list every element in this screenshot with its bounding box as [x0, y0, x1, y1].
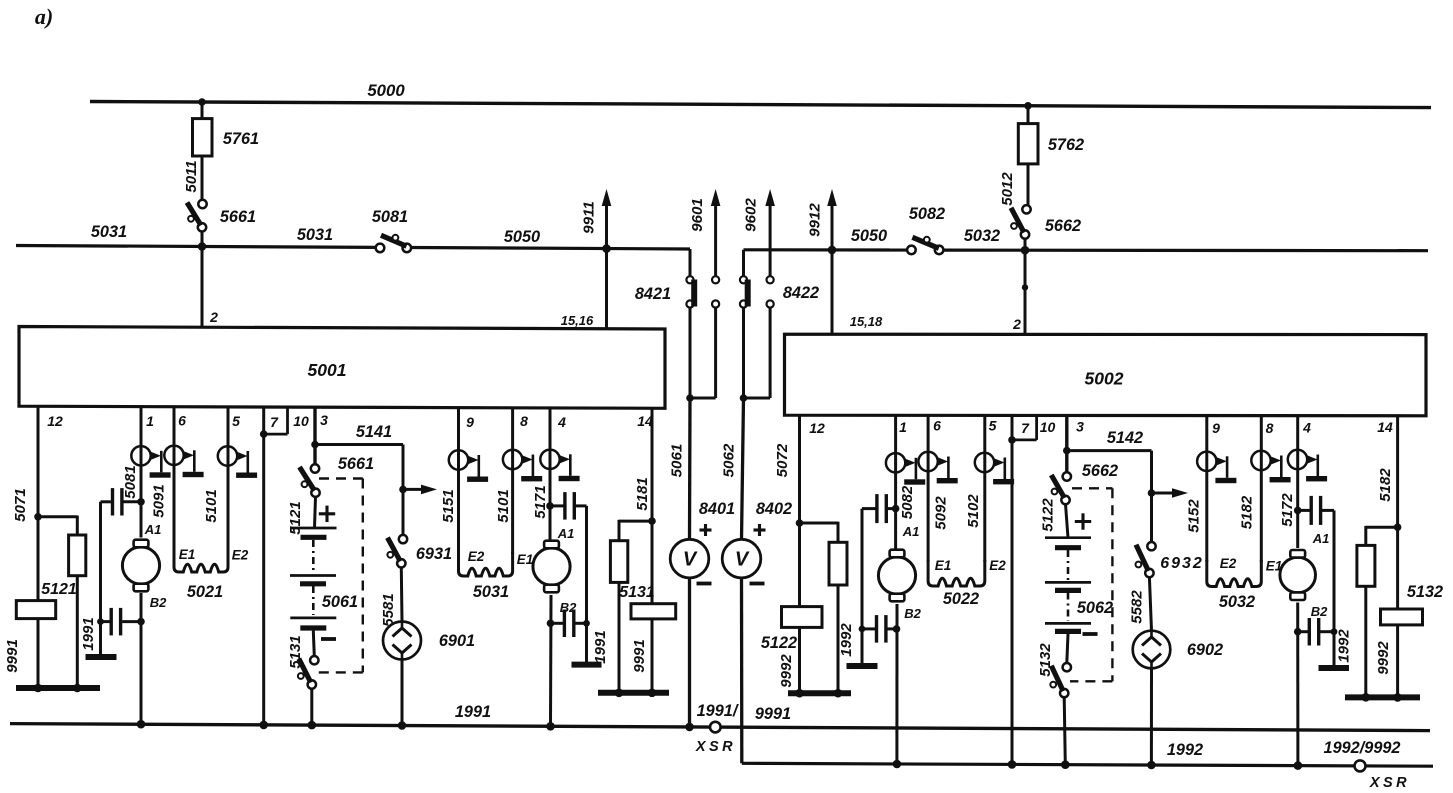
ground bar 1992 (far right capacitor column): [1319, 665, 1350, 671]
ground bar 1991 (middle capacitor column): [572, 662, 602, 668]
svg-text:5031: 5031: [297, 226, 333, 244]
knife switch 5661 (battery isolation): [300, 455, 375, 497]
net label 5050 (right): [851, 227, 887, 245]
ground bar 9991 (pin 14 column): [598, 689, 669, 698]
apparatus box 5002: [785, 334, 1427, 416]
label 8402: [756, 500, 792, 518]
junction voltmeter 8401 on bus 1991: [685, 723, 694, 732]
net label 9991 (rotated, left): [4, 639, 21, 673]
wire node 5071 to resistor branch: [38, 516, 77, 536]
net label 5031 (middle): [297, 226, 333, 244]
svg-text:5172: 5172: [1279, 493, 1296, 527]
suppression capacitor (upper, motor A1): [101, 488, 142, 515]
svg-text:5072: 5072: [774, 443, 791, 477]
svg-text:1992: 1992: [1335, 629, 1352, 663]
contactor contact on pin 9 wire (right): [1197, 452, 1236, 484]
net label 5050 (left): [504, 228, 540, 246]
junction pin 7 wire on bus 1991: [259, 721, 268, 730]
battery 5061 cell 1 with + polarity: [291, 506, 337, 538]
field winding 5021 (terminals E1-E2): [174, 547, 249, 601]
svg-text:B2: B2: [150, 595, 167, 610]
junction lower capacitor on motor wire (far right): [1294, 628, 1302, 636]
svg-text:V: V: [735, 549, 750, 571]
svg-text:5061: 5061: [322, 593, 358, 611]
polarity + of 8401: [700, 524, 712, 536]
svg-text:5152: 5152: [1185, 499, 1202, 533]
contactor contact 5081 on pin 1 wire: [131, 446, 170, 478]
svg-text:4: 4: [1302, 420, 1311, 436]
pin label 8 (box 5002): [1266, 420, 1274, 436]
net label 9992 (rotated, pin 14 column right): [1375, 641, 1392, 675]
svg-text:9991: 9991: [755, 705, 791, 723]
svg-text:3: 3: [1076, 419, 1084, 435]
svg-text:A1: A1: [1312, 531, 1330, 546]
svg-text:1: 1: [899, 419, 907, 435]
wire battery to switch 5132: [1067, 634, 1068, 663]
ground bar 9992 (pin 14 column right): [1345, 693, 1420, 702]
svg-text:9: 9: [1212, 420, 1220, 436]
net label 9991 (rotated, pin 14 column): [631, 639, 648, 672]
battery 5061 cell 3 with - polarity: [290, 618, 336, 639]
terminal label A1 (left motor): [144, 522, 162, 537]
pin label 15,18 (box 5002): [850, 314, 883, 329]
svg-text:5001: 5001: [308, 360, 347, 380]
junction far right motor wire on bus 1992: [1294, 761, 1303, 770]
knife switch 5082 on bus: [907, 205, 945, 254]
resistor (branch of 5122): [829, 542, 847, 585]
signal lamp 6901: [383, 622, 475, 660]
net label 9601 (rotated): [689, 198, 706, 232]
wire pin 6 of 5001 to winding E1: [173, 406, 176, 550]
svg-text:5122: 5122: [1039, 498, 1056, 532]
wire resistor branch to ground bar 9992: [837, 585, 840, 693]
net label 5092 (rotated): [932, 496, 949, 530]
net label 5581 (rotated): [380, 593, 397, 626]
junction resistor branch (pin 14 right): [1394, 523, 1402, 531]
svg-text:4: 4: [557, 414, 566, 430]
svg-text:A1: A1: [557, 526, 575, 541]
svg-text:XSR: XSR: [695, 739, 736, 755]
terminal label A1 (right block motor): [902, 524, 920, 539]
svg-text:E1: E1: [935, 558, 952, 573]
wire pin 12 of 5001 down to node 5071: [37, 406, 40, 517]
net label 5582 (rotated): [1128, 590, 1145, 624]
svg-text:6902: 6902: [1187, 641, 1223, 659]
svg-text:5081: 5081: [372, 208, 408, 226]
junction with take-off arrow on 5142 branch: [1148, 488, 1188, 498]
wire pin 14 of 5001 down: [651, 408, 654, 603]
wire motor B2 to bus 1991: [140, 593, 143, 724]
net label 5152 (rotated): [1185, 499, 1202, 533]
pin label 12 (box 5002): [809, 420, 825, 436]
contactor contact on pin 6 wire (right): [918, 452, 957, 484]
net label 5181 (rotated): [634, 477, 651, 510]
junction motor wire on bus 1991: [137, 720, 146, 729]
svg-text:5062: 5062: [721, 443, 738, 477]
pin label 9 (box 5001): [466, 414, 474, 430]
traction motor armature (pins A1-B2, right block): [878, 550, 915, 602]
traction motor armature (pins A1-B2, left): [122, 540, 159, 592]
polarity - of 8402: [750, 582, 765, 586]
junction battery branch on bus 1991: [308, 721, 317, 730]
svg-text:9992: 9992: [1375, 641, 1392, 675]
wire pin 8 of 5001 to winding E1: [511, 408, 514, 554]
junction lamp wire on bus 1991: [398, 721, 407, 730]
contactor contact on pin 8 wire: [503, 450, 542, 482]
svg-text:5050: 5050: [851, 227, 887, 245]
plug connector 8421 contact b: [712, 276, 719, 307]
net label 5132 (rotated, battery bottom right): [1037, 643, 1054, 677]
net label 1992 on bus: [1167, 741, 1203, 759]
wire resistor 5181 to ground bar 9991: [618, 582, 621, 692]
junction of capacitor 5171 on pin 4 wire: [546, 502, 554, 510]
junction of pin 2 wire with bus 5032: [1021, 246, 1030, 255]
svg-text:9912: 9912: [807, 203, 824, 237]
svg-text:5661: 5661: [220, 208, 256, 226]
svg-text:5012: 5012: [999, 172, 1016, 206]
wire switch 5662 to battery 5062: [1066, 504, 1069, 538]
svg-text:A1: A1: [144, 522, 162, 537]
net label 1991 (rotated, middle): [592, 630, 609, 663]
wire switch 6931 to lamp 6901: [400, 567, 404, 621]
svg-text:5142: 5142: [1107, 429, 1143, 447]
terminal label A1 (far right motor): [1312, 531, 1330, 546]
junction of lower capacitor on motor wire: [137, 618, 145, 626]
svg-text:5182: 5182: [1238, 495, 1255, 529]
svg-text:5032: 5032: [964, 227, 1000, 245]
junction node 5142: [1063, 447, 1071, 455]
svg-text:E2: E2: [989, 558, 1006, 573]
pin label 5 (box 5001): [232, 413, 240, 429]
pin label 10 (box 5002): [1040, 419, 1056, 435]
svg-text:E1: E1: [179, 547, 196, 562]
svg-text:5082: 5082: [909, 205, 945, 223]
wire node 5071 to resistor 5121: [37, 517, 40, 601]
svg-text:9601: 9601: [689, 198, 706, 232]
wire pins 10,3 of 5001 down to switch 5661: [313, 406, 316, 468]
svg-text:8: 8: [1266, 420, 1274, 436]
svg-text:E2: E2: [232, 548, 249, 563]
svg-text:1: 1: [146, 413, 154, 429]
terminal label B2 (right block motor): [904, 606, 921, 621]
svg-text:5: 5: [232, 413, 240, 429]
junction capacitor 5082 on pin 1 wire: [892, 505, 900, 513]
wire node 5072 to resistor branch (right): [800, 522, 839, 543]
svg-text:10: 10: [1040, 419, 1056, 435]
svg-text:5091: 5091: [150, 484, 167, 517]
bus 5031/5050 (second wire, left part): [16, 246, 690, 250]
svg-text:5122: 5122: [761, 634, 797, 652]
net label 5062 (rotated): [721, 443, 738, 477]
svg-text:2: 2: [209, 309, 218, 325]
net label 5011 (rotated): [183, 160, 200, 192]
net label 5122 (rotated, battery top right): [1039, 498, 1056, 532]
wire pin 1 of 5001 to motor A1: [140, 406, 143, 537]
label 8422: [783, 284, 819, 302]
wire switch 5661 to battery 5061: [315, 497, 316, 528]
svg-text:5022: 5022: [943, 590, 979, 608]
net label 5032: [964, 227, 1000, 245]
junction lower capacitor on motor wire (right block): [893, 625, 901, 633]
svg-text:6: 6: [178, 413, 186, 429]
svg-text:5: 5: [989, 418, 997, 434]
dashed enclosure of battery 5061: [317, 479, 363, 673]
connector label XSR (left): [695, 739, 736, 755]
svg-text:5131: 5131: [619, 584, 655, 601]
net label 5141: [356, 423, 392, 441]
wire pin 4 of 5001 to motor A1 (right): [549, 408, 552, 543]
svg-text:15,18: 15,18: [850, 314, 883, 329]
svg-text:5071: 5071: [12, 488, 29, 522]
net label 1992/9992 at connector: [1324, 739, 1401, 757]
svg-text:5101: 5101: [203, 489, 220, 522]
svg-text:5062: 5062: [1077, 599, 1113, 617]
apparatus box 5001: [19, 327, 665, 409]
bus 5050/5032 (second wire, right part): [744, 248, 1429, 252]
contactor contact on pin 4 wire: [540, 450, 579, 482]
resistor box 5132: [1381, 583, 1444, 625]
svg-text:7: 7: [270, 414, 279, 430]
net label 5081 (rotated): [122, 465, 139, 498]
junction node 5071: [34, 513, 42, 521]
ground bar 9991 (left): [16, 684, 100, 693]
svg-text:1992/9992: 1992/9992: [1324, 739, 1401, 757]
wire bus 5050 corner down to plug contact 8421: [689, 249, 692, 276]
net label 9912 (rotated): [807, 203, 824, 237]
wire voltmeter 8402 to bus 1992: [740, 578, 744, 764]
pin label 6 (box 5001): [178, 413, 186, 429]
net label 5101 (rotated, pin 5 wire): [203, 489, 220, 522]
svg-text:9991: 9991: [631, 639, 648, 672]
resistor 5762: [1018, 124, 1084, 164]
svg-text:1991: 1991: [455, 703, 491, 721]
net label 9911 (rotated): [581, 201, 598, 234]
pin label 12 (box 5001): [47, 413, 63, 429]
junction resistor 5181 branch: [648, 517, 656, 525]
knife switch 6932: [1136, 542, 1204, 577]
terminal label B2 (mid motor): [560, 600, 577, 615]
wire switch 6932 to lamp 6902: [1149, 577, 1151, 631]
svg-text:5762: 5762: [1048, 136, 1084, 154]
wire pin 5 of 5002 to winding E2: [983, 415, 986, 562]
contactor contact on pin 6 wire: [164, 446, 203, 478]
net label 9602 (rotated): [743, 198, 760, 232]
wire lamp 6901 to bus 1991: [401, 660, 404, 726]
battery 5062 cell 3 with - polarity: [1045, 623, 1098, 634]
svg-text:6: 6: [933, 418, 941, 434]
connector label XSR (right): [1369, 775, 1410, 791]
field winding 5022 (terminals E1-E2): [928, 558, 1006, 608]
dashed link battery cells 2-3 (right): [1067, 593, 1070, 622]
svg-text:3: 3: [320, 412, 328, 428]
terminal label B2 (left motor): [150, 595, 167, 610]
ground bar 1992 (capacitor column right): [847, 663, 878, 669]
pin label 14 (box 5001): [637, 413, 653, 429]
svg-text:1992: 1992: [1167, 741, 1203, 759]
svg-text:2: 2: [1012, 316, 1021, 332]
suppression capacitor 5171 (upper): [550, 492, 587, 519]
suppression capacitor (lower, middle): [551, 610, 587, 638]
label 5062 (battery): [1077, 599, 1113, 617]
svg-text:5031: 5031: [91, 223, 127, 241]
svg-text:5082: 5082: [899, 485, 916, 519]
label 8421: [635, 285, 671, 303]
svg-text:5102: 5102: [965, 494, 982, 528]
wire bus 5050 corner down to plug contact 8422: [742, 250, 745, 276]
svg-text:XSR: XSR: [1369, 775, 1410, 791]
knife switch 5132 (battery bottom, right): [1050, 663, 1071, 697]
suppression capacitor (lower, far right): [1298, 618, 1334, 646]
wire pin 9 of 5001 to winding E2: [457, 408, 460, 554]
wire 5141 to the right: [315, 443, 403, 446]
bus 1991 (ground wire of section 1): [10, 724, 1430, 731]
pin label 7 (box 5001) with frame: [264, 408, 288, 434]
wire branch to resistor (right): [1366, 526, 1398, 546]
wire pin 5 of 5001 to winding E2: [227, 406, 230, 550]
svg-text:12: 12: [809, 420, 825, 436]
svg-text:E2: E2: [1220, 556, 1237, 571]
wire battery to switch 5131: [313, 631, 314, 657]
signal lamp 6902: [1133, 631, 1223, 669]
label 5061 (battery): [322, 593, 358, 611]
junction below pin 7: [260, 430, 268, 438]
svg-text:9602: 9602: [743, 198, 760, 232]
svg-text:9911: 9911: [581, 201, 598, 234]
plug connector 8422 contact a: [740, 276, 751, 307]
wire 9911 with up arrow: [602, 189, 612, 328]
suppression capacitor (lower, right block): [862, 615, 897, 643]
dashed link battery cells 1-2: [312, 540, 315, 573]
pin label 5 (box 5002): [989, 418, 997, 434]
svg-text:5171: 5171: [532, 485, 549, 518]
wire 8422 contact b down and left to node 5062: [744, 308, 771, 398]
svg-text:6901: 6901: [439, 632, 475, 650]
net label 1992 (rotated, far right): [1335, 629, 1352, 663]
svg-text:5061: 5061: [669, 444, 686, 478]
pin label 4 (box 5002): [1302, 420, 1311, 436]
wire 9601 with up arrow: [711, 189, 721, 276]
wire switch 5132 to bus 1992: [1064, 697, 1065, 765]
ground bar 9992 (right block left): [788, 689, 851, 698]
svg-text:5081: 5081: [122, 465, 139, 498]
wire capacitor column to ground 1991 (middle): [583, 506, 590, 662]
junction of resistor 5761 with bus 5000: [198, 98, 206, 106]
pin label 7 (box 5002) with frame: [1012, 416, 1037, 440]
traction motor armature (pins A1-B2, middle): [533, 541, 570, 593]
plug connector 8422 contact b: [767, 276, 774, 307]
wire node 5061 to voltmeter 8401: [688, 398, 692, 540]
svg-text:5662: 5662: [1082, 462, 1118, 480]
junction node 5141: [311, 441, 319, 449]
field winding 5032 (terminals E2-E1): [1207, 556, 1282, 611]
pin label 2 (box 5001): [209, 309, 218, 325]
terminal label A1 (mid motor): [557, 526, 575, 541]
net label 5072 (rotated): [774, 443, 791, 477]
wire resistor 5762 to switch 5012: [1027, 164, 1030, 205]
net label 5000: [367, 81, 405, 100]
bus 5000 (top supply wire): [90, 102, 1431, 108]
wire 9912 with up arrow to pin 15,18: [827, 189, 837, 335]
junction of resistor 5762 with bus 5000: [1024, 102, 1032, 110]
net label 5182 (rotated, pin 8 wire): [1238, 495, 1255, 529]
svg-text:5101: 5101: [495, 489, 512, 522]
resistor box 5131: [619, 584, 675, 619]
net label 5082 (rotated): [899, 485, 916, 519]
svg-text:14: 14: [1377, 419, 1393, 435]
wire node 5062 to voltmeter 8402: [742, 398, 744, 540]
wire resistor to ground bar 9992 (right): [1364, 586, 1367, 697]
wire capacitor column to ground 1991: [97, 502, 104, 655]
contactor contact on pin 4 wire (right): [1288, 450, 1327, 482]
svg-text:E2: E2: [468, 549, 485, 564]
net label 5012 (rotated): [999, 172, 1016, 206]
connector XSR on bus 1991: [710, 722, 721, 733]
terminal label B2 (far right motor): [1311, 604, 1328, 619]
junction of capacitor wire on pin 1 wire: [137, 498, 145, 506]
svg-text:5050: 5050: [504, 228, 540, 246]
wire bus 5032 to pin 2 of 5002: [1024, 250, 1027, 335]
svg-text:5121: 5121: [41, 581, 77, 598]
pin label 14 (box 5002): [1377, 419, 1393, 435]
svg-text:A1: A1: [902, 524, 920, 539]
wire resistor 5761 to switch 5011: [201, 156, 204, 200]
junction battery branch on bus 1992: [1061, 760, 1070, 769]
resistor box 5122: [761, 607, 822, 652]
net label 5172 (rotated): [1279, 493, 1296, 527]
pin label 3 (box 5001): [320, 412, 328, 428]
net label 5061 (rotated): [669, 444, 686, 478]
knife switch 5662 (battery isolation, right): [1051, 462, 1118, 504]
dashed enclosure of battery 5062: [1070, 488, 1112, 681]
suppression capacitor 5082 (upper): [862, 494, 896, 523]
wire capacitor column to ground 1992 (far right): [1331, 510, 1338, 665]
contactor contact on pin 5 wire: [218, 446, 257, 478]
junction of 9911 with bus 5050: [602, 244, 611, 253]
svg-text:5182: 5182: [1377, 468, 1394, 502]
svg-text:8401: 8401: [699, 500, 735, 518]
wire motor B2 to bus 1991 (middle): [549, 595, 553, 726]
svg-text:1991/: 1991/: [697, 702, 739, 720]
wire box 5131 to ground bar 9991: [651, 619, 654, 693]
pin label 9 (box 5002): [1212, 420, 1220, 436]
net label 5182 (rotated, pin 14 wire): [1377, 468, 1394, 502]
svg-text:5132: 5132: [1407, 583, 1443, 601]
wire pin 8 of 5002 to winding E1: [1260, 416, 1263, 562]
wire 8421 contact a down to node 5061: [689, 308, 692, 398]
net label 5102 (rotated): [965, 494, 982, 528]
pin label 6 (box 5002): [933, 418, 941, 434]
svg-text:6932: 6932: [1160, 555, 1204, 572]
svg-text:a): a): [35, 4, 53, 29]
pin label 15,16 (box 5001): [561, 313, 594, 328]
net label 5151 (rotated): [440, 489, 457, 522]
wire motor B2 to bus 1992: [895, 604, 898, 764]
svg-text:5181: 5181: [634, 477, 651, 510]
bus 1992 (ground wire of section 2): [742, 763, 1433, 766]
pin label 1 (box 5001): [146, 413, 154, 429]
polarity + of 8402: [754, 524, 766, 536]
net label 5091 (rotated): [150, 484, 167, 517]
svg-text:5151: 5151: [440, 489, 457, 522]
svg-text:B2: B2: [1311, 604, 1328, 619]
junction middle motor wire on bus 1991: [546, 722, 555, 731]
junction lower capacitor on motor wire (middle): [547, 620, 555, 628]
wire pin 9 of 5002 to winding E2: [1205, 416, 1208, 562]
wire resistor 5122 to ground bar 9992: [798, 627, 801, 693]
svg-text:B2: B2: [904, 606, 921, 621]
voltmeter 8402: [722, 539, 761, 578]
svg-text:5002: 5002: [1085, 369, 1124, 389]
